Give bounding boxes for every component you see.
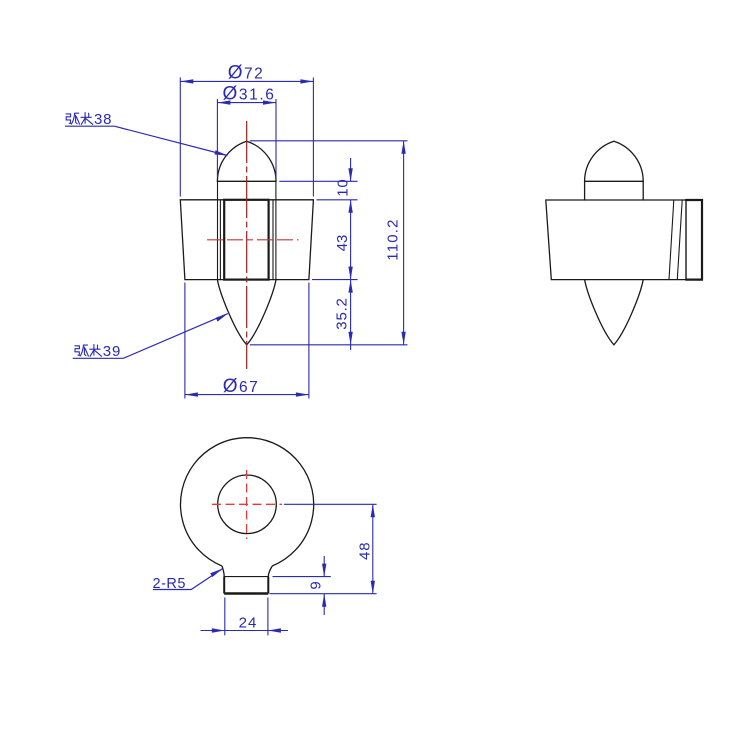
dim Ø31.6 line bbox=[217, 102, 276, 104]
dim 110.2 top arrow bbox=[401, 141, 405, 154]
svg-text:9: 9 bbox=[307, 581, 324, 589]
lower lens (pointed arc) outline bbox=[217, 280, 276, 345]
side neck left bbox=[584, 181, 586, 200]
svg-text:Ø67: Ø67 bbox=[223, 376, 260, 397]
svg-text:110.2: 110.2 bbox=[385, 218, 402, 260]
svg-text:2-R5: 2-R5 bbox=[153, 576, 186, 592]
inner vertical line left bbox=[219, 200, 221, 280]
neck / cylinder edge right bbox=[275, 181, 277, 279]
arrowheads (blue filled) bbox=[180, 79, 405, 397]
side upper lens base line bbox=[585, 180, 644, 182]
leader 弧长38 bbox=[65, 126, 228, 155]
dim 9 stems bbox=[323, 556, 325, 577]
svg-text:Ø72: Ø72 bbox=[228, 63, 265, 84]
svg-text:48: 48 bbox=[356, 541, 373, 560]
leader 弧长39 bbox=[73, 314, 228, 359]
bottom view centerline horizontal bbox=[212, 503, 282, 505]
dim Ø67 extension lines bbox=[184, 283, 186, 399]
dim 35.2 top arrow bbox=[348, 280, 352, 293]
dim 24 left extension bbox=[224, 598, 226, 636]
leader 2-R5 bbox=[153, 569, 223, 590]
char 弧 bbox=[66, 114, 71, 123]
dim 48 top extension bbox=[284, 503, 377, 505]
dim Ø67 line bbox=[185, 394, 309, 396]
tab top chord line bbox=[224, 576, 268, 578]
Ø67 arrows bbox=[185, 392, 198, 396]
char 长 bbox=[81, 113, 93, 125]
svg-text:35.2: 35.2 bbox=[334, 297, 351, 329]
side band outline bbox=[546, 200, 702, 280]
dim 24 line bbox=[201, 630, 289, 632]
Ø72 arrows bbox=[180, 79, 193, 83]
svg-text:38: 38 bbox=[94, 111, 112, 128]
svg-text:43: 43 bbox=[334, 235, 351, 252]
fillet R5 right bbox=[268, 566, 272, 577]
tab right edge bbox=[267, 577, 269, 594]
inner hole circle bbox=[218, 475, 277, 534]
side neck right bbox=[642, 181, 644, 200]
dim 35.2 bottom arrow bbox=[348, 332, 352, 345]
outer ring circle (cut at bottom) bbox=[181, 438, 314, 566]
side slanted edge line 1 bbox=[669, 200, 674, 280]
svg-text:10: 10 bbox=[335, 178, 352, 196]
tab bottom edge bbox=[224, 592, 268, 594]
inner vertical line right bbox=[272, 200, 274, 280]
neck / cylinder edge left bbox=[217, 181, 219, 279]
dim 48 line bbox=[372, 504, 374, 593]
upper lens (pointed arc) outline bbox=[217, 141, 276, 181]
side lower lens outline bbox=[585, 280, 644, 345]
dim 48 arrows bbox=[371, 504, 375, 517]
centerline vertical (front) bbox=[246, 121, 248, 369]
dim 43 bottom arrow bbox=[348, 267, 352, 280]
dim 43 top arrow bbox=[348, 200, 352, 213]
svg-text:24: 24 bbox=[239, 615, 258, 632]
side tab cap rectangle bbox=[685, 200, 687, 280]
fillet R5 left bbox=[222, 566, 224, 577]
leader arrow 2-R5 bbox=[210, 569, 222, 577]
side slanted edge line 2 bbox=[677, 200, 682, 280]
svg-text:Ø31.6: Ø31.6 bbox=[223, 84, 276, 105]
Ø31.6 arrows bbox=[217, 100, 230, 104]
tip extension line y=140.8 bbox=[250, 140, 408, 142]
dim Ø72 line bbox=[180, 80, 313, 82]
centerline horizontal (front) bbox=[207, 239, 299, 241]
bottom view centerline vertical bbox=[246, 470, 248, 539]
chain dim extension line y=199.8 bbox=[317, 199, 358, 201]
dim Ø31.6 extension lines bbox=[216, 99, 218, 177]
leader arrow 弧长39 bbox=[216, 314, 228, 322]
dim 9 top extension bbox=[273, 576, 331, 578]
dim 48/9 bottom extension bbox=[270, 593, 377, 595]
dim 9 arrows (outside) bbox=[322, 564, 326, 577]
tip extension line y=344.8 bbox=[250, 344, 408, 346]
label 弧长39 text bbox=[75, 345, 102, 357]
chain dim extension line y=181.3 bbox=[279, 180, 357, 182]
label 弧长38 text bbox=[66, 113, 93, 125]
dim 110.2 bottom arrow bbox=[401, 332, 405, 345]
chain dim line 35.2 bbox=[350, 280, 352, 350]
chain dim line 43 bbox=[350, 200, 352, 280]
dim Ø72 extension lines bbox=[179, 78, 181, 197]
char 弧 bbox=[75, 346, 80, 355]
dim 24 arrows (outside pointing inward) bbox=[212, 628, 225, 632]
upper lens base line bbox=[217, 180, 276, 182]
band trapezoid bbox=[180, 200, 313, 280]
dim 24 right extension bbox=[267, 598, 269, 636]
svg-text:39: 39 bbox=[103, 343, 121, 360]
leader arrow 弧长38 bbox=[215, 150, 228, 155]
chain dim extension line y=279.6 bbox=[312, 279, 358, 281]
dim 10 top arrow (outside, pointing down) bbox=[348, 168, 352, 181]
char 长 bbox=[90, 345, 102, 357]
dim line 110.2 bbox=[403, 141, 405, 345]
thick tab projection rectangle bbox=[224, 200, 268, 280]
side upper lens outline bbox=[585, 141, 644, 181]
chain dim line 10 upper stem bbox=[350, 158, 352, 181]
tab left edge bbox=[223, 577, 225, 594]
